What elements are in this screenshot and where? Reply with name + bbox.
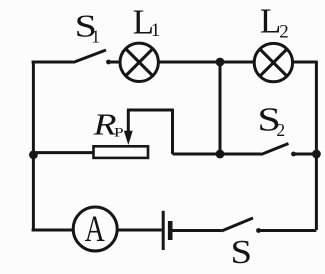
wire wiper loop top: [127, 109, 173, 112]
wire wiper loop right: [171, 109, 174, 154]
wire mid vertical: [219, 62, 222, 154]
wire left rail to rheostat: [33, 151, 94, 154]
wire battery to switch S: [173, 229, 222, 232]
lamp L2 circle: [254, 43, 292, 81]
svg-text:L: L: [260, 1, 281, 40]
battery long plate: [162, 211, 165, 250]
label RP: [92, 107, 123, 142]
wire node to S2: [220, 153, 261, 156]
svg-text:2: 2: [279, 21, 289, 42]
battery short plate: [168, 221, 173, 240]
wire right rail: [315, 61, 318, 230]
label L2: [260, 1, 289, 42]
resistor RP wiper arrow: [124, 110, 133, 145]
wire S2 to right rail: [292, 153, 316, 156]
node junction top: [216, 58, 225, 67]
node junction middle: [216, 150, 225, 159]
wire S1 contact to L1: [108, 61, 121, 64]
lamp L1 circle: [120, 43, 158, 81]
svg-text:1: 1: [151, 20, 161, 41]
switch S blade: [222, 218, 254, 231]
lamp L1 cross: [126, 49, 153, 76]
switch S1 blade: [73, 50, 106, 63]
switch S2 contact dot: [291, 152, 296, 157]
node junction right rail: [312, 150, 321, 159]
switch S2 blade: [261, 144, 289, 155]
label S2: [257, 102, 285, 141]
wire L1 to node: [158, 61, 220, 64]
wire node to L2: [220, 61, 255, 64]
svg-text:2: 2: [276, 120, 285, 140]
label S1: [75, 9, 100, 47]
resistor RP body: [94, 146, 149, 158]
wire ammeter to battery: [117, 229, 162, 232]
label L1: [133, 2, 161, 41]
svg-text:R: R: [92, 107, 116, 142]
svg-text:S: S: [231, 234, 253, 271]
wire L2 to top-right corner: [293, 61, 317, 64]
ammeter A circle: [73, 207, 117, 251]
node junction left rail: [29, 150, 38, 159]
wire loop to node: [173, 153, 221, 156]
svg-text:1: 1: [91, 27, 100, 47]
wire bottom-left segment: [32, 229, 74, 232]
svg-text:A: A: [85, 208, 105, 249]
wire S to bottom-right corner: [258, 229, 317, 232]
wire top-left segment: [32, 61, 73, 64]
switch S contact dot: [256, 228, 261, 233]
wire left rail: [32, 62, 35, 230]
svg-text:P: P: [114, 124, 124, 139]
switch S1 contact dot: [106, 60, 111, 65]
lamp L2 cross: [260, 49, 287, 76]
